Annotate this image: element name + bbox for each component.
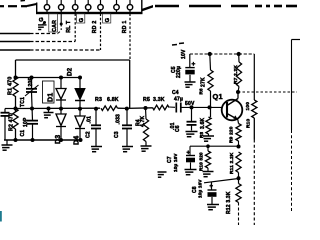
svg-text:C6: C6 xyxy=(175,125,181,132)
svg-text:.01: .01 xyxy=(87,116,93,124)
svg-text:C4: C4 xyxy=(172,90,179,96)
svg-text:R5: R5 xyxy=(143,97,150,103)
svg-text:10µ 16V: 10µ 16V xyxy=(173,153,178,172)
svg-text:R1 470: R1 470 xyxy=(8,76,14,95)
svg-text:Q1: Q1 xyxy=(213,92,223,101)
svg-text:R12 3.3K: R12 3.3K xyxy=(226,191,232,214)
svg-text:TC1: TC1 xyxy=(20,97,26,107)
svg-text:R6: R6 xyxy=(199,88,204,95)
svg-text:10V: 10V xyxy=(181,49,187,59)
svg-text:G: G xyxy=(79,18,85,23)
svg-text:47µ: 47µ xyxy=(174,97,183,103)
svg-text:27K: 27K xyxy=(201,77,207,87)
svg-text:D2: D2 xyxy=(67,67,74,76)
svg-text:C1: C1 xyxy=(20,130,26,137)
svg-text:R8: R8 xyxy=(199,131,204,138)
svg-text:R11 2.2K: R11 2.2K xyxy=(229,152,235,174)
svg-text:D1: D1 xyxy=(48,93,55,102)
svg-text:R3: R3 xyxy=(95,97,102,103)
svg-text:6.8K: 6.8K xyxy=(107,97,119,103)
svg-text:C3: C3 xyxy=(114,131,120,138)
svg-text:G: G xyxy=(105,18,111,23)
svg-text:RD 1: RD 1 xyxy=(122,21,128,34)
svg-text:R9 220: R9 220 xyxy=(229,126,235,143)
svg-text:.033: .033 xyxy=(116,114,122,125)
svg-text:G: G xyxy=(39,17,45,22)
svg-text:R10: R10 xyxy=(246,118,252,128)
svg-text:3.3K: 3.3K xyxy=(153,97,165,103)
svg-text:R10 820: R10 820 xyxy=(199,152,204,171)
svg-text:100: 100 xyxy=(245,102,251,111)
svg-text:220µ: 220µ xyxy=(176,66,182,78)
svg-text:C2: C2 xyxy=(86,131,92,138)
svg-text:3.6K: 3.6K xyxy=(200,117,206,129)
svg-text:10P: 10P xyxy=(23,117,29,127)
svg-text:RL T: RL T xyxy=(66,20,72,33)
svg-text:10µ 16V: 10µ 16V xyxy=(198,179,203,198)
svg-text:RD 2: RD 2 xyxy=(92,21,98,34)
